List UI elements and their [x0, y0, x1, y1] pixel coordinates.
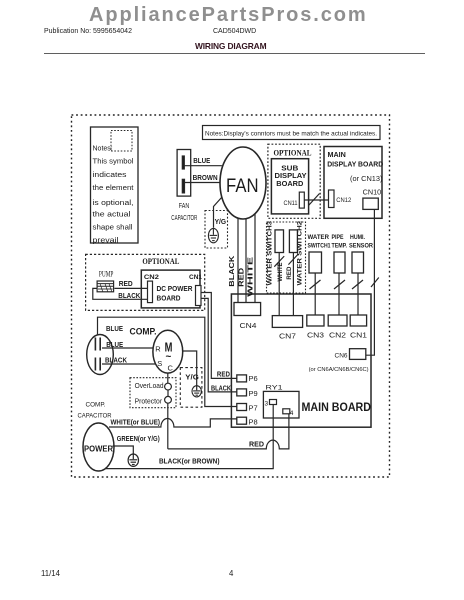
header logo — [89, 4, 369, 27]
wire WHITE fan to CN4 — [254, 214, 256, 303]
connector P9 — [237, 389, 247, 396]
connector CN2 — [328, 315, 347, 326]
connector P8 — [237, 417, 247, 424]
footer page number — [229, 569, 233, 578]
overload protector dashed box — [130, 378, 176, 408]
svg-text:(or CN13): (or CN13) — [350, 174, 383, 183]
svg-text:BROWN: BROWN — [193, 173, 218, 182]
main display board U2 — [324, 147, 382, 219]
optional box (pump / dc power board) — [86, 254, 205, 310]
wire WHITE(or BLUE) power to P8 with hump — [109, 419, 237, 428]
svg-text:SWITCH1: SWITCH1 — [308, 243, 331, 250]
connector P6 — [237, 375, 247, 382]
svg-text:CN2: CN2 — [144, 274, 159, 281]
svg-text:prevail: prevail — [93, 237, 120, 244]
compressor motor M2 — [153, 330, 183, 373]
optional box (sub display) — [268, 144, 320, 218]
svg-text:CN10: CN10 — [363, 188, 382, 197]
svg-text:RED: RED — [249, 442, 264, 449]
wire overload protector down to RED node — [167, 403, 169, 449]
WATER SWITCH1 label — [308, 234, 331, 250]
svg-text:RY1: RY1 — [266, 385, 284, 392]
ground symbol (fan) — [208, 228, 218, 242]
comp motor letters — [155, 339, 173, 372]
wire BLUE comp capacitor to comp R — [102, 347, 153, 349]
svg-text:WHITE: WHITE — [246, 256, 255, 296]
svg-text:shape shall: shape shall — [93, 225, 133, 232]
overload protector label — [135, 383, 164, 406]
svg-text:BLACK: BLACK — [118, 293, 140, 300]
wire WHITE water switch3 to CN7 — [278, 253, 280, 316]
connector P7 — [237, 404, 247, 411]
relay pin 3 pad — [270, 400, 277, 405]
svg-text:TEMP.: TEMP. — [332, 243, 348, 250]
connector CN1 — [350, 315, 366, 326]
svg-text:the element: the element — [93, 185, 134, 192]
main display board label — [327, 150, 383, 169]
publication number — [44, 28, 132, 35]
HUMI SENSOR label — [349, 234, 373, 250]
slash on pipe temp wire — [334, 280, 345, 289]
svg-text:is optional,: is optional, — [93, 200, 134, 207]
svg-text:MAIN BOARD: MAIN BOARD — [302, 400, 372, 414]
wire pipe temp to CN2 — [338, 273, 340, 315]
svg-text:the actual: the actual — [93, 211, 132, 218]
top notes box (display connectors note) — [203, 126, 381, 140]
svg-text:P8: P8 — [249, 418, 258, 427]
svg-text:POWER: POWER — [84, 444, 113, 453]
connector CN11 — [299, 192, 304, 208]
svg-text:RED: RED — [237, 268, 246, 287]
wire BLUE comp capacitor rail to P7 — [98, 317, 237, 406]
svg-text:This symbol: This symbol — [93, 159, 134, 166]
svg-text:Y/G: Y/G — [215, 217, 227, 226]
svg-text:PIPE: PIPE — [332, 234, 344, 241]
svg-text:SENSOR: SENSOR — [349, 243, 373, 250]
connector CN7 — [272, 316, 302, 328]
diagram outer dashed border — [72, 115, 390, 477]
svg-text:PUMP: PUMP — [99, 270, 114, 279]
slash on CN10 wire — [371, 278, 379, 288]
sub display board label — [275, 163, 307, 188]
svg-text:RED: RED — [286, 266, 293, 279]
wire RED CN1 to P6 — [201, 293, 237, 379]
svg-text:CN4: CN4 — [240, 323, 257, 330]
svg-text:P6: P6 — [249, 374, 258, 383]
svg-text:BLACK: BLACK — [211, 385, 231, 392]
svg-text:BOARD: BOARD — [276, 179, 303, 188]
footer date — [41, 569, 60, 578]
main board U1 — [231, 294, 371, 427]
wire CN10 to CN6 — [366, 209, 375, 355]
page title — [195, 41, 266, 51]
svg-text:OverLoad: OverLoad — [135, 383, 164, 390]
svg-text:WATER SWITCH3: WATER SWITCH3 — [266, 220, 273, 285]
wire RED pump to CN2 — [114, 287, 147, 289]
svg-text:~: ~ — [166, 352, 172, 363]
svg-text:DISPLAY BOARD: DISPLAY BOARD — [327, 160, 383, 169]
svg-text:OPTIONAL: OPTIONAL — [274, 149, 312, 158]
fan capacitor C1 — [177, 150, 191, 197]
connector CN1 (dc board) — [196, 286, 202, 306]
svg-text:WHITE(or BLUE): WHITE(or BLUE) — [111, 418, 161, 427]
wire RED water switch2 to CN7 — [292, 253, 294, 316]
svg-text:C: C — [168, 363, 174, 372]
svg-text:Notes:: Notes: — [93, 146, 113, 153]
slash on switch2 wire — [288, 254, 298, 265]
svg-text:WATER: WATER — [308, 234, 330, 241]
water switch 1 — [309, 252, 322, 273]
wire water switch1 to CN3 — [314, 273, 316, 315]
wire comp C to overload protector — [167, 373, 169, 383]
overload protector contacts — [165, 383, 172, 403]
svg-text:CAPACITOR: CAPACITOR — [78, 413, 112, 420]
svg-text:3: 3 — [265, 401, 269, 408]
svg-text:CN2: CN2 — [329, 333, 346, 340]
ground symbol (power) — [128, 454, 138, 466]
power cord plug — [83, 423, 114, 471]
slash on CN11-CN12 wire — [309, 194, 320, 206]
wire BROWN fan capacitor to fan — [185, 182, 221, 184]
svg-text:BOARD: BOARD — [157, 293, 182, 302]
notes box (optional symbol legend) — [91, 127, 139, 243]
connector CN3 — [307, 315, 324, 326]
slash on switch3 wire — [274, 256, 284, 267]
wire RED fan to CN4 — [245, 219, 247, 303]
connector CN10 — [363, 198, 378, 209]
connector CN2 (dc board) — [148, 281, 153, 303]
svg-text:CAPACITOR: CAPACITOR — [171, 215, 197, 222]
DC POWER BOARD label — [157, 284, 194, 303]
connector CN12 — [329, 190, 335, 208]
notes legend text — [93, 146, 134, 245]
svg-text:WHITE: WHITE — [277, 263, 284, 282]
svg-text:CN11: CN11 — [284, 200, 299, 207]
wire BLACK(or BROWN) power to relay pin3 — [105, 468, 274, 470]
wire relay pin3 down — [272, 405, 274, 469]
svg-text:4: 4 — [290, 410, 294, 417]
Y/G ground box (fan) — [205, 211, 228, 249]
relay pin 4 pad — [283, 409, 290, 414]
wire CN11 to CN12 — [304, 199, 328, 201]
svg-text:BLACK: BLACK — [105, 358, 127, 365]
slash on switch1 wire — [310, 280, 321, 289]
ground symbol (comp) — [192, 386, 201, 397]
wire BLACK fan to CN4 — [237, 218, 239, 303]
wire comp to ground Y/G — [183, 351, 197, 387]
sub display board U3 — [271, 159, 308, 214]
svg-text:(or CN6A/CN6B/CN6C): (or CN6A/CN6B/CN6C) — [309, 367, 369, 373]
connector CN6 — [350, 349, 366, 360]
water switch dashed box — [267, 222, 306, 293]
svg-text:BLACK: BLACK — [227, 255, 236, 287]
connector CN4 — [234, 303, 261, 316]
svg-text:OPTIONAL: OPTIONAL — [142, 257, 179, 266]
svg-text:CN6: CN6 — [335, 353, 348, 360]
svg-text:Protector: Protector — [135, 398, 163, 405]
slash on humi sensor wire — [352, 280, 363, 289]
svg-text:COMP.: COMP. — [130, 326, 157, 336]
comp capacitor label — [78, 402, 112, 420]
svg-text:CN7: CN7 — [279, 333, 296, 340]
svg-text:CN12: CN12 — [336, 197, 351, 204]
wire humi sensor to CN1 — [357, 273, 359, 315]
wire RED overload to relay pin4 with hump — [168, 414, 289, 449]
svg-text:FAN: FAN — [226, 175, 259, 197]
svg-text:MAIN: MAIN — [328, 150, 346, 159]
svg-text:RED: RED — [119, 281, 133, 288]
model number — [213, 28, 256, 35]
wire BLACK pump to CN2 — [93, 288, 148, 299]
svg-text:HUMI.: HUMI. — [350, 234, 365, 241]
header rule — [44, 53, 425, 54]
dc power board U4 — [141, 270, 200, 308]
svg-text:BLUE: BLUE — [106, 342, 123, 349]
svg-text:CN1: CN1 — [350, 333, 367, 340]
svg-text:P9: P9 — [249, 389, 258, 398]
humidity sensor — [352, 252, 364, 273]
Y/G ground box (comp) — [180, 368, 202, 408]
svg-text:BLACK(or BROWN): BLACK(or BROWN) — [159, 458, 220, 465]
wire fan to ground Y/G — [214, 197, 223, 228]
svg-text:R: R — [155, 344, 161, 353]
svg-text:COMP.: COMP. — [86, 402, 106, 409]
pump P1 — [97, 281, 114, 292]
wire BLACK CN1 to P9 — [201, 298, 237, 392]
relay RY1 — [263, 391, 299, 418]
wire BLUE fan capacitor to fan — [184, 165, 222, 167]
svg-text:FAN: FAN — [179, 203, 190, 210]
fan motor M1 — [220, 147, 266, 219]
svg-text:DC POWER: DC POWER — [157, 284, 194, 293]
wire GREEN(or Y/G) power to ground — [113, 446, 134, 455]
svg-text:WATER SWITCH2: WATER SWITCH2 — [297, 220, 304, 285]
water switch 3 — [275, 230, 284, 253]
svg-text:BLUE: BLUE — [193, 156, 210, 165]
svg-text:GREEN(or Y/G): GREEN(or Y/G) — [117, 434, 160, 443]
PIPE TEMP label — [332, 234, 348, 250]
water switch 2 — [289, 230, 297, 253]
fan capacitor label — [171, 203, 197, 222]
svg-text:P7: P7 — [249, 404, 258, 413]
svg-text:CN1: CN1 — [189, 274, 202, 281]
wire BLACK comp capacitor to comp S — [102, 363, 156, 365]
svg-text:CN3: CN3 — [307, 333, 324, 340]
pipe temp sensor — [334, 252, 345, 273]
svg-text:S: S — [157, 359, 162, 368]
svg-text:Y/G: Y/G — [185, 374, 199, 381]
svg-text:BLUE: BLUE — [106, 326, 123, 333]
svg-text:indicates: indicates — [93, 172, 128, 179]
comp capacitor C2 — [87, 335, 114, 375]
svg-text:Notes:Display's conntors must: Notes:Display's conntors must be match t… — [205, 131, 377, 138]
svg-text:RED: RED — [217, 372, 230, 379]
